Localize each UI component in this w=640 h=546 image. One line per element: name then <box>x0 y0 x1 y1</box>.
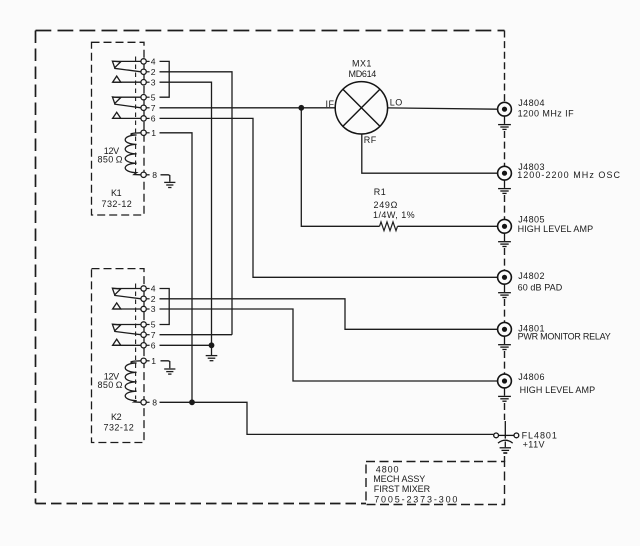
connector J4806 <box>498 374 512 401</box>
K2 pin 4 <box>141 286 146 291</box>
svg-text:J4804: J4804 <box>518 98 545 108</box>
connector J4804 <box>498 102 512 129</box>
svg-text:6: 6 <box>151 114 156 124</box>
svg-text:8: 8 <box>152 170 157 180</box>
K1 contact 1 NC bar (to pin 4) <box>113 60 141 62</box>
K2 contact 2 NC triangle <box>112 324 120 331</box>
K2 contact 1 NO bar (to pin 3) <box>113 308 141 310</box>
junction dot on IF line <box>298 105 304 111</box>
K1 coil 12V 850ohm <box>125 133 141 175</box>
relay K1 mechanical link (dashed) <box>135 57 137 173</box>
resistor R1 zigzag <box>380 222 398 231</box>
svg-text:K1: K1 <box>111 188 122 198</box>
svg-text:3: 3 <box>151 304 156 314</box>
wire R1 to J4805 <box>398 225 498 227</box>
svg-text:2: 2 <box>151 67 156 77</box>
K2 pin 7 <box>141 332 146 337</box>
svg-text:+11V: +11V <box>523 440 545 450</box>
svg-text:1/4W, 1%: 1/4W, 1% <box>373 210 415 220</box>
label box (4800 mech assy) <box>366 462 505 505</box>
K2 pin 8 <box>141 400 146 405</box>
svg-text:6: 6 <box>151 341 156 351</box>
K2 pin 6 <box>141 343 146 348</box>
K2 contact 2 NO triangle <box>113 339 121 345</box>
K2 pin 5 <box>141 322 146 327</box>
mixer MX1 X diagonals <box>343 89 380 126</box>
wire K2 pin8 to FL4801 <box>160 402 494 434</box>
relay pin circles K1 <box>141 59 146 405</box>
K1 pin 2 <box>141 69 146 74</box>
enclosure dashed outline left <box>35 31 37 504</box>
svg-text:7: 7 <box>151 103 156 113</box>
relay pin stubs <box>146 61 149 402</box>
mixer MX1 circle <box>335 82 387 134</box>
svg-text:J4802: J4802 <box>518 271 545 281</box>
wire mixer RF down and to J4803 <box>362 134 498 173</box>
wire K1 pin8 stub <box>146 174 149 176</box>
wire K1 pin8 to ground <box>161 175 170 182</box>
svg-text:4: 4 <box>151 284 156 294</box>
connector J4801 <box>498 322 512 349</box>
enclosure dashed outline right (between connectors) <box>504 31 506 463</box>
svg-text:850 Ω: 850 Ω <box>98 380 123 390</box>
ground at K2 pin1 <box>164 369 175 374</box>
ground at K2 pin6 junction <box>206 345 218 360</box>
wire K2 pin1 stub <box>146 360 149 362</box>
wire K2 pin2 to J4801 <box>160 299 498 330</box>
K1 contact 2 NC triangle <box>112 97 120 104</box>
K1 pin 6 <box>141 116 146 121</box>
K2 pin 2 <box>141 296 146 301</box>
K1 pin 4 <box>141 59 146 64</box>
svg-text:7005-2373-300: 7005-2373-300 <box>374 494 459 504</box>
junction dot K1 pin1 / K2 pin8 node <box>189 399 195 405</box>
K1 pin 1 <box>141 130 146 135</box>
K1 contact 2 NO bar (to pin 6) <box>113 117 141 119</box>
svg-text:5: 5 <box>151 92 156 102</box>
svg-text:5: 5 <box>151 320 156 330</box>
svg-text:732-12: 732-12 <box>102 199 133 209</box>
wire K1 pin2 to K2 pin7 (vertical x=232) <box>160 72 233 335</box>
wire K1 pin4-pin5 bracket <box>160 61 170 97</box>
connector J4802 <box>498 270 512 297</box>
K2 contact 2 armature (pin 7) <box>114 331 141 334</box>
svg-text:7: 7 <box>151 330 156 340</box>
svg-text:850 Ω: 850 Ω <box>98 155 123 165</box>
connector J4803 <box>498 166 512 193</box>
K1 contact 2 NC bar (to pin 5) <box>113 96 141 98</box>
svg-text:MD614: MD614 <box>349 69 377 79</box>
wire junction to R1 row (vertical x=301.3) <box>301 108 379 227</box>
svg-text:732-12: 732-12 <box>104 423 135 433</box>
K2 contact 1 NC triangle <box>112 288 120 295</box>
svg-text:HIGH LEVEL AMP: HIGH LEVEL AMP <box>520 385 596 395</box>
junction dot K2 pin6 node <box>209 342 215 348</box>
K1 contact 1 NO triangle <box>113 76 121 82</box>
svg-text:PWR MONITOR RELAY: PWR MONITOR RELAY <box>518 332 611 342</box>
relay K2 mechanical link (dashed) <box>135 284 137 400</box>
svg-text:60 dB PAD: 60 dB PAD <box>518 282 563 292</box>
K2 pin 1 <box>141 358 146 363</box>
wire K1 pin6 to J4802 <box>160 118 498 277</box>
svg-text:LO: LO <box>390 98 403 108</box>
K1 contact 2 NO triangle <box>113 112 121 118</box>
K2 contact 1 NC bar (to pin 4) <box>113 288 141 290</box>
svg-text:2: 2 <box>151 294 156 304</box>
K2 contact 2 NC bar (to pin 5) <box>113 324 141 326</box>
wire K2 pin4-pin5 bracket <box>160 289 170 325</box>
wire K2 pin1 to ground <box>161 361 170 369</box>
svg-text:MECH ASSY: MECH ASSY <box>373 474 425 484</box>
K1 pin 8 <box>141 172 146 177</box>
wire K1 pin3 to K2 pin6 junction (vertical x=211.5) <box>160 82 212 345</box>
K1 contact 1 armature (pin 2) <box>114 68 141 72</box>
svg-text:249Ω: 249Ω <box>374 200 399 210</box>
svg-text:J4806: J4806 <box>518 372 545 382</box>
K1 contact 2 armature (pin 7) <box>114 104 141 108</box>
connector J4805 <box>498 219 512 246</box>
enclosure dashed outline bottom <box>36 503 367 505</box>
svg-text:1200-2200 MHz OSC: 1200-2200 MHz OSC <box>517 170 621 180</box>
wire mixer LO to J4804 <box>388 108 498 109</box>
K1 pin 7 <box>141 105 146 110</box>
K1 contact 1 NO bar (to pin 3) <box>113 81 141 83</box>
wire K1 pin7 to mixer IF <box>160 107 336 109</box>
K1 pin 5 <box>141 95 146 100</box>
svg-text:MX1: MX1 <box>352 58 372 68</box>
svg-text:3: 3 <box>151 77 156 87</box>
svg-text:1: 1 <box>151 356 156 366</box>
K1 contact 1 NC triangle <box>112 61 120 68</box>
wire K1 pin1 down (vertical x=192) <box>160 133 193 403</box>
feedthrough FL4801 <box>494 421 519 453</box>
ground at K1 pin8 <box>164 182 175 187</box>
svg-text:1200 MHz IF: 1200 MHz IF <box>518 108 575 118</box>
wire K2 pin3 to J4806 <box>160 309 498 381</box>
relay K2 dashed box <box>92 269 145 443</box>
K2 coil 12V 850ohm <box>125 361 141 403</box>
svg-text:8: 8 <box>152 398 157 408</box>
svg-text:K2: K2 <box>111 412 122 422</box>
K2 contact 1 armature (pin 2) <box>114 295 141 298</box>
K2 contact 1 NO triangle <box>113 303 121 309</box>
svg-text:4: 4 <box>151 57 156 67</box>
svg-text:HIGH LEVEL AMP: HIGH LEVEL AMP <box>518 224 594 234</box>
relay K1 dashed box <box>92 42 145 215</box>
K2 contact 2 NO bar (to pin 6) <box>113 344 141 346</box>
wire K2 pin7 stub to vertical <box>160 334 233 336</box>
svg-text:R1: R1 <box>374 187 386 197</box>
svg-text:1: 1 <box>151 128 156 138</box>
svg-text:IF: IF <box>326 99 335 109</box>
K1 pin 3 <box>141 80 146 85</box>
enclosure dashed outline top <box>36 30 505 32</box>
svg-text:RF: RF <box>364 135 377 145</box>
svg-text:FIRST MIXER: FIRST MIXER <box>374 484 431 494</box>
K2 pin 3 <box>141 306 146 311</box>
wire K2 pin6 to junction <box>160 344 212 346</box>
